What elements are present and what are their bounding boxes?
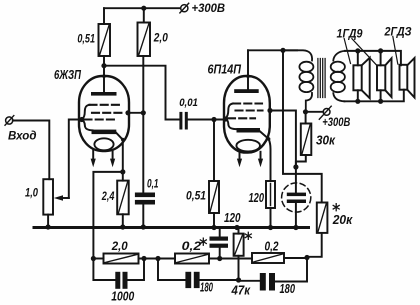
node C120-bus dot [234, 225, 239, 230]
wire 180#1 branch [158, 259, 185, 281]
wire levelB 0.2#1 right [209, 258, 252, 260]
node 47k levelC dot [236, 277, 241, 282]
wire C120 top to bus [219, 228, 221, 237]
wire C0.1 bottom to bus [142, 205, 144, 228]
tube V2 cathode [237, 128, 271, 141]
node R0.51#2-bus dot [211, 225, 216, 230]
node anode junction dot [101, 63, 106, 68]
svg-text:180: 180 [280, 282, 296, 296]
node +300V junction dot [303, 109, 308, 114]
node levelB dot b [155, 256, 160, 261]
tube V2 suppressor grid g3 [233, 102, 262, 104]
pot wiper arrow [54, 195, 69, 200]
resistor R 0.51 (anode load) [99, 24, 111, 56]
wire cathode V1 down [122, 140, 124, 172]
wire coupling cap to grid2 [188, 119, 226, 121]
wire screen V2 to right [270, 111, 296, 168]
node cathode junction dot [120, 169, 125, 174]
resistor R 0.2 #2 [252, 253, 284, 263]
node levelB left dot [91, 256, 96, 261]
wire 1000 cap right up [128, 259, 145, 281]
svg-text:2,4: 2,4 [101, 189, 115, 203]
wire C120 bottom to levelB [219, 248, 221, 259]
svg-text:6П14П: 6П14П [208, 62, 242, 77]
node bypass-bus dot [293, 225, 298, 230]
asterisk 47k [245, 232, 251, 239]
wire 2.0 bottom lead down to screen node and cap 0.1 [142, 56, 144, 193]
wire +300 junction to R30k [305, 112, 307, 124]
tube V1 screen grid g2 [92, 112, 122, 114]
tube V1 envelope [79, 76, 129, 151]
wire bypass cap to bus [295, 203, 297, 228]
capacitor C 0.1 (screen bypass) [135, 193, 155, 205]
svg-text:120: 120 [249, 190, 265, 205]
node rail junction dot [141, 6, 146, 11]
node anode2 junction dot [280, 48, 285, 53]
svg-text:2ГДЗ: 2ГДЗ [384, 25, 412, 39]
svg-text:0,2: 0,2 [182, 239, 202, 253]
tube V2 g3-cathode internal link [226, 104, 237, 130]
wire pot bottom to bus [47, 215, 49, 227]
svg-text:6ЖЗП: 6ЖЗП [54, 67, 81, 82]
speaker LS2 1GD9 [377, 51, 392, 101]
node screen junction dot [141, 110, 146, 115]
terminal +300V top [180, 3, 189, 13]
node C0.1-bus dot [141, 224, 146, 229]
svg-text:0,2: 0,2 [265, 240, 279, 254]
wire cathode V2 down [269, 139, 271, 181]
svg-text:1,0: 1,0 [25, 186, 38, 200]
wire 2.0 top lead [143, 8, 145, 22]
node R120-bus dot [268, 225, 273, 230]
svg-text:1ГД9: 1ГД9 [337, 27, 363, 41]
wire cathode junction to R2.4 [122, 172, 124, 181]
tube V1 heater lead left with arrow [91, 150, 96, 167]
speaker LS1 1GD9 [353, 51, 369, 101]
tube V2 heater lead left with arrow [237, 153, 242, 168]
transformer T1 primary [283, 50, 313, 112]
wire levelC 180#2 right and up [275, 257, 307, 282]
transformer T1 secondary [331, 51, 345, 101]
terminal +300V mid [306, 106, 332, 119]
node R2.4-bus dot [120, 224, 125, 229]
node sp1 bottom dot [355, 99, 360, 104]
node screen2 junction dot [293, 164, 298, 169]
node g1 exit dot tube2 [223, 116, 228, 121]
tube V1 anode [91, 74, 117, 95]
wire anode to coupling cap [104, 66, 179, 120]
wire feedback drop from anode [283, 50, 322, 202]
wire R2.4 bottom to bus [122, 214, 124, 227]
tube V2 control grid g1 [228, 117, 255, 119]
svg-text:0,51: 0,51 [77, 31, 95, 45]
tube V1 suppressor grid g3 [90, 104, 124, 106]
svg-text:1000: 1000 [111, 289, 135, 304]
resistor R 120 cathode [266, 181, 275, 208]
tube V2 heater lead right with arrow [258, 152, 263, 168]
svg-text:0,1: 0,1 [147, 179, 159, 191]
capacitor screen bypass in dashed circle [282, 183, 311, 212]
wire g1 to wiper [69, 120, 82, 199]
tube V1 cathode [92, 130, 125, 142]
node sp2 bottom dot [378, 99, 383, 104]
svg-text:2,0: 2,0 [111, 239, 128, 253]
resistor R 0.51 (grid leak) [209, 181, 219, 213]
node sp1 top dot [355, 48, 360, 53]
resistor R 2.0 (screen feed) [138, 23, 151, 57]
wire level B from feedback drop [93, 258, 103, 260]
tube V1 g3-cathode internal link [82, 105, 93, 131]
leader 1GD9 to LS2 [352, 39, 376, 65]
wire anode rail to transformer [248, 49, 297, 51]
wire R0.51#2 bottom to bus [213, 213, 215, 228]
ground bus [34, 226, 309, 229]
tube V1 control grid g1 [85, 118, 119, 120]
capacitor C 0.01 coupling [179, 112, 187, 130]
node levelB dot c [217, 256, 222, 261]
wire 47k bottom to levelC [238, 256, 240, 280]
wire R30k bottom jog to screen node [296, 155, 306, 167]
wire screen grid stub tube1 [129, 112, 144, 114]
wire levelC 180#1 to 47k [200, 279, 238, 281]
svg-text:120: 120 [224, 210, 241, 225]
node g1 exit dot [79, 117, 84, 122]
resistor R 2.0 feedback [104, 254, 139, 264]
wire grid junction to R0.51#2 [213, 120, 215, 182]
wire levelC 47k to 180#2 [239, 280, 260, 282]
tube V2 heater [236, 140, 260, 152]
svg-text:0,51: 0,51 [186, 189, 206, 203]
asterisk 20k [333, 204, 339, 211]
svg-text:+300В: +300В [192, 3, 226, 15]
speakers bottom rail [345, 90, 404, 102]
wire cathode junction to feedback drop [93, 172, 122, 259]
svg-text:47к: 47к [231, 283, 252, 298]
tube V2 envelope [224, 76, 270, 153]
svg-text:0,01: 0,01 [179, 97, 198, 109]
node g2 exit dot [125, 110, 130, 115]
svg-text:30к: 30к [316, 133, 336, 148]
wire anode V2 up [247, 50, 249, 89]
wire input to pot top [13, 121, 50, 180]
resistor R 20k feedback [317, 203, 328, 233]
svg-text:Вход: Вход [8, 128, 37, 142]
capacitor C 120 [210, 237, 229, 248]
node sp2 top dot [378, 48, 383, 53]
tube V1 heater [94, 138, 113, 150]
svg-text:2,0: 2,0 [153, 31, 168, 45]
node pot-bus dot [46, 224, 51, 229]
resistor R 30k [301, 124, 312, 156]
resistor R 0.2 #1 [175, 254, 209, 264]
svg-text:+300В: +300В [322, 117, 350, 129]
wire levelB 0.2#2 right [284, 257, 307, 259]
wire top supply rail [104, 7, 180, 9]
capacitor C 180 #1 [185, 272, 199, 288]
capacitor C 1000 [115, 272, 127, 289]
capacitor C 180 #2 [260, 273, 275, 291]
potentiometer R 1.0 [43, 179, 53, 214]
tube V1 heater lead right with arrow [110, 150, 115, 167]
leader 2GD3 to LS3 [393, 36, 398, 64]
asterisk 0,2 #1 [200, 238, 206, 245]
wire 0.51 bottom to anode [103, 56, 105, 92]
wire 1000 cap branch [93, 259, 115, 281]
tube V2 anode [234, 74, 259, 93]
node levelB right dot [304, 255, 309, 260]
wire 47k top lead [238, 228, 240, 234]
wire R20k bottom to level B [307, 233, 322, 257]
svg-text:180: 180 [200, 281, 213, 295]
speaker LS3 2GD3 [400, 58, 415, 98]
svg-text:20к: 20к [332, 212, 354, 227]
wire levelB R2.0 right [139, 258, 176, 260]
tube V2 screen grid g2 [236, 109, 263, 111]
wire R120 bottom to bus [270, 208, 272, 228]
terminal input [5, 116, 14, 126]
speakers top rail [345, 51, 401, 65]
node grid2 junction dot [211, 117, 216, 122]
resistor R 2.4 (cathode bias) [117, 181, 129, 215]
resistor R 47k [234, 234, 244, 256]
wire 0.51 top lead [103, 8, 105, 24]
leader 1GD9 to LS1 [344, 39, 350, 64]
wire screen node to bypass cap [295, 167, 297, 193]
transformer T1 core [318, 59, 325, 98]
node g2 exit dot tube2 [267, 108, 272, 113]
node levelB dot a [141, 256, 146, 261]
